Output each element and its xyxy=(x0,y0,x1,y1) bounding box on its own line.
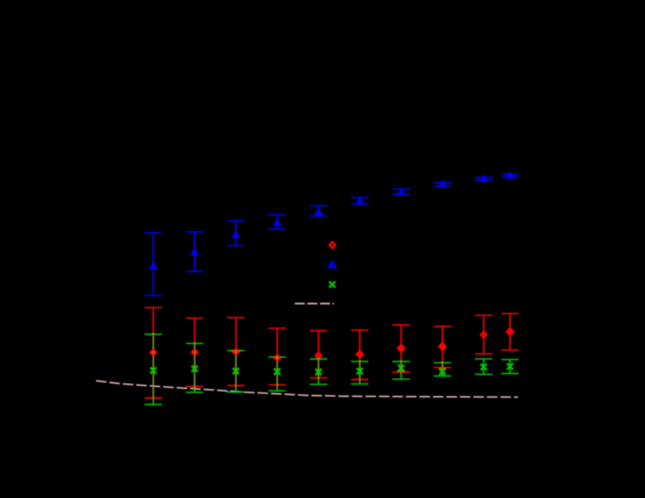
blue error bar, point 4 xyxy=(276,215,278,230)
green error bar caps, column 4 xyxy=(269,356,286,358)
dashed pale-pink trend curve xyxy=(96,381,518,397)
blue triangle marker, point 6 xyxy=(355,197,364,205)
blue error bar, point 6 xyxy=(359,198,361,204)
green x marker, point 6 xyxy=(357,368,363,374)
red diamond marker, point 2 xyxy=(192,349,198,355)
blue error bar, point 8 xyxy=(441,183,443,187)
blue triangle marker, point 4 xyxy=(273,218,282,226)
green error bar caps, column 5 xyxy=(310,358,327,360)
red error bar caps, column 1 xyxy=(145,307,162,309)
blue triangle marker, point 1 xyxy=(149,262,158,270)
green x marker, point 10 xyxy=(507,363,513,369)
red error bar caps, column 7 xyxy=(392,324,409,326)
red diamond marker, point 8 xyxy=(438,342,447,352)
red diamond marker, point 5 xyxy=(316,352,322,358)
red diamond marker, point 9 xyxy=(481,332,487,338)
blue error bar, point 10 xyxy=(509,174,511,177)
green x marker, point 8 xyxy=(439,369,445,375)
red error bar caps, column 6 xyxy=(351,329,368,331)
blue triangle marker, point 8 xyxy=(438,180,447,188)
red and green error bar lines, column 9 xyxy=(483,315,485,354)
green error bar caps, column 9 xyxy=(475,358,492,360)
red and green error bar lines, column 8 xyxy=(441,326,443,362)
blue triangle marker, point 7 xyxy=(397,188,406,196)
red diamond marker, point 6 xyxy=(357,351,363,357)
green x marker, point 5 xyxy=(315,369,321,375)
red and green error bar lines, column 3 xyxy=(235,318,237,351)
green error bar caps, column 3 xyxy=(227,350,244,352)
red diamond marker, point 7 xyxy=(397,343,406,353)
green x marker, point 3 xyxy=(233,368,239,374)
blue triangle marker, point 10 xyxy=(505,171,514,179)
red diamond marker, point 10 xyxy=(505,327,514,337)
green x marker, point 4 xyxy=(274,369,280,375)
blue error bar, point 7 xyxy=(400,189,402,194)
red diamond marker, point 1 xyxy=(150,350,156,356)
green error bar caps, column 7 xyxy=(392,361,409,363)
green error bar caps, column 1 xyxy=(145,333,162,335)
red and green error bar lines, column 4 xyxy=(276,328,278,357)
green x marker, point 1 xyxy=(150,367,156,373)
red error bar caps, column 5 xyxy=(310,330,327,332)
blue triangle marker, point 9 xyxy=(479,174,488,182)
red error bar caps, column 3 xyxy=(227,317,244,319)
red and green error bar lines, column 6 xyxy=(359,330,361,361)
legend: green x sample xyxy=(329,281,335,287)
green x marker, point 7 xyxy=(398,365,404,371)
blue error bar, point 3 xyxy=(235,221,237,246)
red error bar caps, column 8 xyxy=(434,325,451,327)
blue error bar, point 2 xyxy=(194,232,196,272)
green error bar caps, column 10 xyxy=(501,359,518,361)
red and green error bar lines, column 7 xyxy=(400,325,402,362)
red error bar caps, column 4 xyxy=(269,327,286,329)
red and green error bar lines, column 5 xyxy=(318,331,320,359)
red and green error bar lines, column 1 xyxy=(152,308,154,335)
red diamond marker, point 3 xyxy=(233,349,239,355)
green error bar caps, column 8 xyxy=(434,362,451,364)
green x marker, point 2 xyxy=(192,366,198,372)
blue triangle marker, point 2 xyxy=(190,248,199,256)
blue error bar, point 5 xyxy=(318,206,320,216)
red diamond marker, point 4 xyxy=(274,355,280,361)
blue error bar, point 1 xyxy=(152,233,154,296)
green x marker, point 9 xyxy=(481,364,487,370)
red error bar caps, column 10 xyxy=(501,313,518,315)
blue error bar, point 9 xyxy=(483,177,485,179)
blue triangle marker, point 5 xyxy=(314,208,323,216)
blue triangle marker, point 3 xyxy=(231,231,240,239)
red error bar caps, column 2 xyxy=(186,317,203,319)
legend: blue open triangle sample xyxy=(329,262,336,268)
green error bar caps, column 6 xyxy=(351,360,368,362)
green error bar caps, column 2 xyxy=(186,342,203,344)
red and green error bar lines, column 10 xyxy=(509,314,511,351)
red and green error bar lines, column 2 xyxy=(194,318,196,343)
legend: dashed line sample xyxy=(295,303,334,305)
legend: red open diamond sample xyxy=(329,242,335,248)
red error bar caps, column 9 xyxy=(475,314,492,316)
